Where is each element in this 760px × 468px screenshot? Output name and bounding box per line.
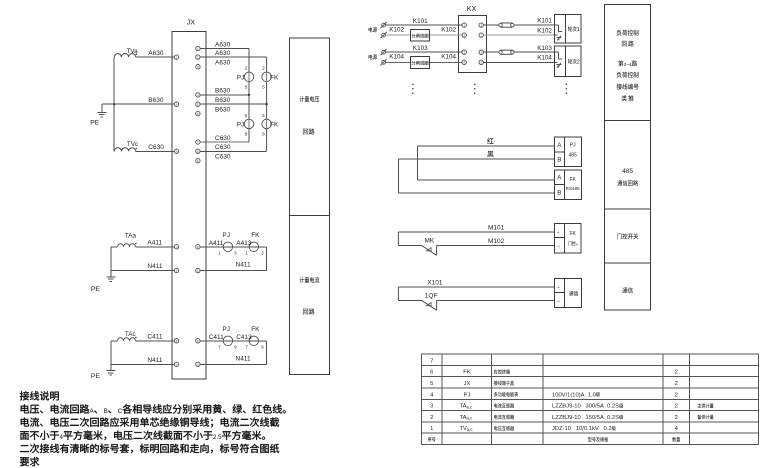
wire K102 from KX to round-1 box bbox=[483, 27, 554, 35]
KX terminal (left) 1 bbox=[462, 23, 466, 27]
svg-text:1: 1 bbox=[176, 269, 178, 273]
svg-text:7: 7 bbox=[197, 140, 199, 144]
parts table row 1 bbox=[430, 426, 679, 432]
parts table row 3 bbox=[430, 403, 713, 409]
svg-text:TAa,c: TAa,c bbox=[460, 415, 473, 421]
svg-text:PJ: PJ bbox=[237, 75, 245, 82]
wire K104 to KX (through trip coil) bbox=[386, 54, 463, 63]
JX terminal (left) row 6 bbox=[174, 339, 178, 343]
svg-text:A411: A411 bbox=[209, 240, 224, 247]
svg-text:K104: K104 bbox=[537, 54, 552, 61]
svg-text:5: 5 bbox=[430, 381, 433, 387]
wire K101 from KX to round-1 box bbox=[483, 18, 554, 25]
wire C630 (1) to PJ branch bbox=[200, 135, 249, 142]
svg-text:2: 2 bbox=[262, 66, 265, 71]
JX terminal (right) row 9 bbox=[196, 159, 200, 163]
svg-text:C411: C411 bbox=[147, 333, 162, 340]
power source label (rows K103/K104) bbox=[369, 54, 377, 59]
svg-text:K102: K102 bbox=[537, 27, 552, 34]
svg-text:4: 4 bbox=[60, 434, 64, 441]
svg-text:485: 485 bbox=[569, 153, 578, 159]
wire A411 from TAa to JX bbox=[111, 239, 174, 246]
load-control round 2 box (K103/K104) bbox=[554, 46, 581, 77]
terminal FK door contact (+,-) bbox=[555, 223, 582, 253]
svg-text:FK: FK bbox=[570, 177, 577, 183]
svg-text:2: 2 bbox=[197, 55, 199, 59]
parts table header row bbox=[428, 437, 680, 442]
wire 485-B (black) to PJ bbox=[398, 151, 554, 159]
svg-text:0: 0 bbox=[176, 245, 178, 249]
svg-text:2: 2 bbox=[430, 415, 433, 421]
door switch MK bbox=[398, 232, 436, 255]
svg-text:MK: MK bbox=[425, 237, 435, 244]
junction PJ branch / B630 bbox=[248, 94, 250, 96]
svg-text:FK: FK bbox=[251, 232, 260, 239]
JX terminal (right) row 6 bbox=[196, 111, 200, 115]
svg-text:FK: FK bbox=[463, 370, 471, 376]
svg-text:PJ: PJ bbox=[237, 122, 245, 129]
svg-text:8: 8 bbox=[176, 150, 178, 154]
JX terminal (right) row 3 bbox=[196, 65, 200, 69]
svg-text:7: 7 bbox=[245, 344, 248, 349]
wire return to communication terminal bbox=[437, 299, 555, 301]
svg-text:2: 2 bbox=[463, 33, 465, 37]
wire X101 to communication terminal bbox=[398, 279, 554, 287]
terminal strip KX bbox=[459, 16, 487, 73]
ground PE (voltage circuit) bbox=[90, 104, 106, 126]
wire C630 (2) to FK branch bbox=[200, 144, 267, 151]
svg-text:100V/1(10)A 1.0: 100V/1(10)A 1.0 bbox=[552, 392, 596, 398]
terminal FK RS485 port (terminals A,B) bbox=[554, 170, 581, 200]
svg-text:9: 9 bbox=[261, 344, 264, 349]
svg-text:4: 4 bbox=[430, 392, 434, 398]
svg-text:3: 3 bbox=[463, 50, 465, 54]
svg-text:2: 2 bbox=[675, 392, 678, 398]
JX terminal (left) row 5 bbox=[174, 268, 178, 272]
svg-text:K104: K104 bbox=[441, 54, 456, 61]
svg-text:PJ: PJ bbox=[222, 326, 230, 333]
terminal strip JX bbox=[172, 31, 206, 379]
svg-text:−: − bbox=[557, 299, 560, 305]
svg-text:2: 2 bbox=[675, 415, 678, 421]
svg-text:3: 3 bbox=[480, 50, 482, 54]
svg-text:4: 4 bbox=[480, 61, 482, 65]
label B630 (3) spare bbox=[215, 107, 231, 114]
JX terminal (right) row 11 bbox=[196, 268, 200, 272]
wire N411 to JX (TAc loop) bbox=[111, 341, 174, 365]
svg-text:PJ: PJ bbox=[222, 232, 230, 239]
svg-text:2: 2 bbox=[675, 370, 678, 376]
supply terminal for K104 bbox=[381, 59, 387, 65]
svg-text:5: 5 bbox=[197, 102, 199, 106]
JX terminal (right) row 4 bbox=[196, 93, 200, 97]
label communication bbox=[622, 287, 632, 293]
svg-text:8: 8 bbox=[245, 131, 248, 136]
svg-text:2: 2 bbox=[176, 339, 178, 343]
svg-text:PE: PE bbox=[91, 286, 100, 293]
svg-text:C630: C630 bbox=[148, 144, 164, 151]
KX terminal (right) 1 bbox=[479, 23, 483, 27]
svg-text:0: 0 bbox=[197, 245, 199, 249]
svg-text:PE: PE bbox=[90, 119, 99, 126]
svg-text:2.5: 2.5 bbox=[213, 434, 222, 441]
svg-text:TAc: TAc bbox=[125, 331, 136, 338]
svg-text:FK: FK bbox=[251, 326, 260, 333]
svg-text:C: C bbox=[118, 408, 123, 415]
fuse link on K103 bbox=[499, 50, 514, 54]
svg-text:1: 1 bbox=[463, 23, 465, 27]
svg-text:2: 2 bbox=[675, 404, 678, 410]
junction FK branch / B630 bbox=[265, 103, 267, 105]
meter PJ RS485 port (terminals A,B) bbox=[554, 137, 581, 167]
label 485 communication circuit bbox=[617, 168, 638, 186]
KX terminal (left) 3 bbox=[462, 50, 466, 54]
svg-text:2~4: 2~4 bbox=[624, 62, 632, 67]
svg-text:C630: C630 bbox=[215, 154, 231, 161]
svg-text:A630: A630 bbox=[148, 50, 164, 57]
svg-text:PJ: PJ bbox=[570, 142, 576, 148]
svg-text:K104: K104 bbox=[389, 54, 404, 61]
svg-text:1QF: 1QF bbox=[425, 292, 438, 299]
label metering current circuit bbox=[300, 277, 320, 315]
svg-text:2: 2 bbox=[577, 59, 580, 65]
svg-text:PE: PE bbox=[91, 373, 100, 380]
svg-text:B630: B630 bbox=[215, 97, 231, 104]
voltage transformer TVc bbox=[114, 141, 138, 151]
svg-text:N411: N411 bbox=[236, 355, 251, 362]
wire C411 from TAc to JX bbox=[111, 333, 174, 340]
FK voltage branch wire bbox=[266, 57, 268, 151]
annotation box: door switch bbox=[605, 209, 651, 263]
label KX bbox=[467, 4, 477, 13]
KX terminal (right) 2 bbox=[479, 33, 483, 37]
label A630 (3) spare bbox=[215, 60, 231, 67]
svg-text:B630: B630 bbox=[215, 107, 231, 114]
label metering voltage circuit bbox=[300, 96, 320, 135]
supply terminal for K102 bbox=[381, 32, 387, 38]
svg-text:JDZ-10 10/0.1kV 0.2: JDZ-10 10/0.1kV 0.2 bbox=[552, 426, 612, 432]
svg-text:3: 3 bbox=[234, 250, 237, 255]
svg-text:FK: FK bbox=[270, 75, 279, 82]
svg-text:+: + bbox=[557, 230, 560, 235]
wire B630 to JX bbox=[102, 97, 174, 104]
svg-text:C413: C413 bbox=[236, 334, 252, 341]
svg-text:A630: A630 bbox=[215, 41, 231, 48]
JX terminal (right) row 13 bbox=[196, 362, 200, 366]
svg-text:M102: M102 bbox=[488, 238, 505, 245]
svg-text:2: 2 bbox=[245, 66, 248, 71]
svg-text:A630: A630 bbox=[215, 50, 231, 57]
wire A630 (1) to PJ branch bbox=[200, 41, 249, 48]
switch 1QF bbox=[398, 287, 437, 310]
svg-text:A: A bbox=[557, 142, 562, 149]
wire K103 from KX to round-2 box bbox=[483, 45, 554, 52]
svg-text:3: 3 bbox=[197, 65, 199, 69]
meter current loop C411 through PJ and FK (pins 7,9) bbox=[200, 326, 266, 365]
svg-text:A411: A411 bbox=[147, 239, 162, 246]
wire 485-A (red) to PJ bbox=[418, 138, 555, 146]
wire K102 to KX (through trip coil) bbox=[386, 27, 463, 35]
meter FK voltage terminal (pins 5,8) bbox=[262, 113, 279, 137]
svg-text:K103: K103 bbox=[413, 45, 428, 52]
label door switch bbox=[617, 233, 638, 239]
wire K104 from KX to round-2 box bbox=[483, 54, 554, 62]
supply terminal for K101 bbox=[381, 22, 387, 28]
ground PE (TAa loop) bbox=[91, 271, 116, 294]
fuse link on K101 bbox=[499, 23, 514, 27]
svg-text:B: B bbox=[104, 408, 108, 415]
svg-text:LZZBJ9-10 300/5A 0.2S: LZZBJ9-10 300/5A 0.2S bbox=[552, 404, 619, 410]
wire K101 to KX bbox=[386, 18, 463, 25]
svg-text:K102: K102 bbox=[389, 27, 404, 34]
power source label (rows K101/K102) bbox=[369, 27, 377, 32]
svg-text:K101: K101 bbox=[537, 18, 552, 25]
current transformer TAa bbox=[118, 232, 137, 246]
svg-text:C630: C630 bbox=[215, 144, 231, 151]
svg-text:5: 5 bbox=[262, 113, 265, 118]
svg-text:4: 4 bbox=[197, 93, 199, 97]
load-control round 1 box (K101/K102) bbox=[554, 15, 581, 43]
junction at B630/PE tap bbox=[113, 103, 115, 105]
svg-text:7: 7 bbox=[218, 344, 221, 349]
label load control circuit bbox=[616, 30, 638, 102]
supply terminal for K103 bbox=[381, 49, 387, 55]
wire K103 to KX bbox=[386, 45, 463, 52]
wire A630 from TVa to JX bbox=[136, 50, 175, 57]
ellipsis dots (left column) bbox=[412, 84, 414, 94]
wire M101 to door-contact terminal bbox=[398, 224, 554, 232]
parts table row 6 bbox=[430, 369, 678, 375]
svg-text:K103: K103 bbox=[537, 45, 552, 52]
svg-text:8: 8 bbox=[262, 131, 265, 136]
wire C630 from TVc to JX bbox=[136, 144, 175, 151]
svg-text:N411: N411 bbox=[147, 263, 162, 270]
svg-text:2: 2 bbox=[197, 339, 199, 343]
svg-text:TAa,c: TAa,c bbox=[460, 404, 473, 410]
svg-text:B: B bbox=[557, 157, 561, 164]
svg-text:3: 3 bbox=[197, 363, 199, 367]
meter current loop A411 through PJ and FK (pins 1,3) bbox=[200, 232, 266, 271]
annotation box: communication bbox=[605, 263, 651, 310]
communication terminal box (+,-) bbox=[554, 279, 581, 308]
wire B630 (2) to FK branch bbox=[200, 97, 267, 104]
svg-text:1: 1 bbox=[197, 47, 199, 51]
svg-text:FK: FK bbox=[570, 231, 577, 237]
svg-text:1: 1 bbox=[218, 250, 221, 255]
svg-text:3: 3 bbox=[261, 250, 264, 255]
ellipsis dots (right column) bbox=[566, 84, 568, 94]
svg-text:2: 2 bbox=[176, 55, 178, 59]
wire M102 to door-contact terminal bbox=[437, 238, 555, 246]
ellipsis dots (middle column) bbox=[474, 84, 476, 94]
svg-text:B: B bbox=[557, 189, 561, 196]
svg-text:485: 485 bbox=[622, 168, 633, 175]
parts table row 4 bbox=[430, 392, 678, 398]
svg-text:K102: K102 bbox=[441, 27, 456, 34]
svg-text:+: + bbox=[557, 285, 560, 290]
svg-text:7: 7 bbox=[430, 358, 433, 364]
svg-text:5: 5 bbox=[245, 84, 248, 89]
trip coil (opening coil) on K102 bbox=[410, 29, 429, 41]
svg-text:1: 1 bbox=[245, 250, 248, 255]
svg-text:M101: M101 bbox=[488, 224, 505, 231]
JX terminal (left) row 2 bbox=[174, 102, 178, 106]
label C630 (3) spare bbox=[215, 154, 231, 161]
svg-text:3: 3 bbox=[430, 404, 433, 410]
meter PJ voltage terminal (pins 2,5) bbox=[237, 66, 254, 90]
voltage transformer TVa bbox=[114, 48, 138, 57]
PJ voltage branch wire bbox=[248, 49, 250, 143]
svg-text:C630: C630 bbox=[215, 135, 231, 142]
svg-text:K101: K101 bbox=[413, 18, 428, 25]
svg-text:B630: B630 bbox=[215, 88, 231, 95]
svg-text:1: 1 bbox=[197, 269, 199, 273]
svg-text:6: 6 bbox=[245, 113, 248, 118]
JX terminal (right) row 7 bbox=[196, 140, 200, 144]
parts list table grid bbox=[421, 354, 758, 445]
svg-text:5: 5 bbox=[262, 84, 265, 89]
JX terminal (left) row 4 bbox=[174, 245, 178, 249]
svg-text:TAa: TAa bbox=[125, 232, 137, 239]
svg-text:−: − bbox=[557, 244, 560, 250]
svg-text:JX: JX bbox=[187, 17, 196, 26]
JX terminal (left) row 3 bbox=[174, 149, 178, 153]
svg-text:A630: A630 bbox=[215, 60, 231, 67]
svg-text:6: 6 bbox=[430, 370, 433, 376]
svg-text:9: 9 bbox=[234, 344, 237, 349]
svg-text:3: 3 bbox=[176, 363, 178, 367]
svg-text:KX: KX bbox=[467, 4, 477, 13]
svg-text:A: A bbox=[90, 408, 95, 415]
parts table row 2 bbox=[430, 415, 713, 421]
svg-text:C411: C411 bbox=[209, 334, 224, 341]
annotation box: 485 communication circuit bbox=[605, 120, 651, 208]
svg-text:X101: X101 bbox=[427, 279, 443, 286]
svg-text:N411: N411 bbox=[236, 262, 251, 269]
svg-text:2: 2 bbox=[480, 33, 482, 37]
svg-text:A: A bbox=[576, 242, 578, 246]
KX terminal (right) 4 bbox=[479, 60, 483, 64]
svg-text:9: 9 bbox=[197, 159, 199, 163]
svg-text:1: 1 bbox=[480, 23, 482, 27]
annotation box: metering voltage / current circuit bbox=[289, 38, 329, 374]
svg-text:FK: FK bbox=[270, 122, 279, 129]
wire 485-A drop to FK bbox=[418, 146, 555, 180]
svg-text:TVa,c: TVa,c bbox=[460, 426, 473, 432]
JX terminal (right) row 8 bbox=[196, 149, 200, 153]
svg-text:6: 6 bbox=[197, 112, 199, 116]
wiring notes text bbox=[20, 391, 286, 466]
JX terminal (right) row 10 bbox=[196, 245, 200, 249]
JX terminal (left) row 7 bbox=[174, 362, 178, 366]
wire N411 to JX (TAa loop) bbox=[111, 247, 174, 271]
annotation column: load control circuit bbox=[605, 4, 651, 120]
current transformer TAc bbox=[118, 331, 137, 341]
label JX bbox=[187, 17, 196, 26]
svg-text:B630: B630 bbox=[148, 97, 164, 104]
JX terminal (right) row 2 bbox=[196, 55, 200, 59]
KX terminal (left) 4 bbox=[462, 60, 466, 64]
wire B630 (1) to PJ branch bbox=[200, 88, 249, 95]
svg-text:1: 1 bbox=[577, 27, 580, 33]
parts table row 5 bbox=[430, 381, 678, 387]
svg-text:2: 2 bbox=[675, 381, 678, 387]
JX terminal (right) row 12 bbox=[196, 339, 200, 343]
ground PE (TAc loop) bbox=[91, 364, 116, 380]
svg-text:RS485: RS485 bbox=[566, 186, 580, 191]
svg-text:PJ: PJ bbox=[464, 392, 471, 398]
wire 485-B drop to FK bbox=[398, 159, 554, 193]
wire A630 (2) to FK branch bbox=[200, 50, 267, 57]
svg-text:4: 4 bbox=[675, 426, 679, 432]
meter PJ voltage terminal (pins 6,8) bbox=[237, 113, 254, 137]
svg-text:TVc: TVc bbox=[127, 141, 138, 148]
parts table row 7 bbox=[430, 358, 433, 364]
trip coil (opening coil) on K104 bbox=[410, 56, 429, 68]
svg-text:JX: JX bbox=[464, 381, 471, 387]
KX terminal (right) 3 bbox=[479, 50, 483, 54]
svg-text:A413: A413 bbox=[236, 240, 252, 247]
svg-text:N411: N411 bbox=[147, 357, 162, 364]
svg-text:5: 5 bbox=[176, 102, 178, 106]
svg-text:4: 4 bbox=[463, 61, 465, 65]
JX terminal (left) row 1 bbox=[174, 55, 178, 59]
svg-text:A: A bbox=[557, 175, 562, 182]
JX terminal (right) row 1 bbox=[196, 46, 200, 50]
svg-text:TVa: TVa bbox=[127, 48, 139, 55]
JX terminal (right) row 5 bbox=[196, 102, 200, 106]
svg-text:1: 1 bbox=[430, 426, 433, 432]
svg-text:8: 8 bbox=[197, 150, 199, 154]
svg-text:LZZBJ9-10 150/5A 0.2S: LZZBJ9-10 150/5A 0.2S bbox=[552, 415, 619, 421]
KX terminal (left) 2 bbox=[462, 33, 466, 37]
meter FK voltage terminal (pins 2,5) bbox=[262, 66, 279, 90]
wire tying TVa and TVc primaries bbox=[113, 57, 115, 151]
